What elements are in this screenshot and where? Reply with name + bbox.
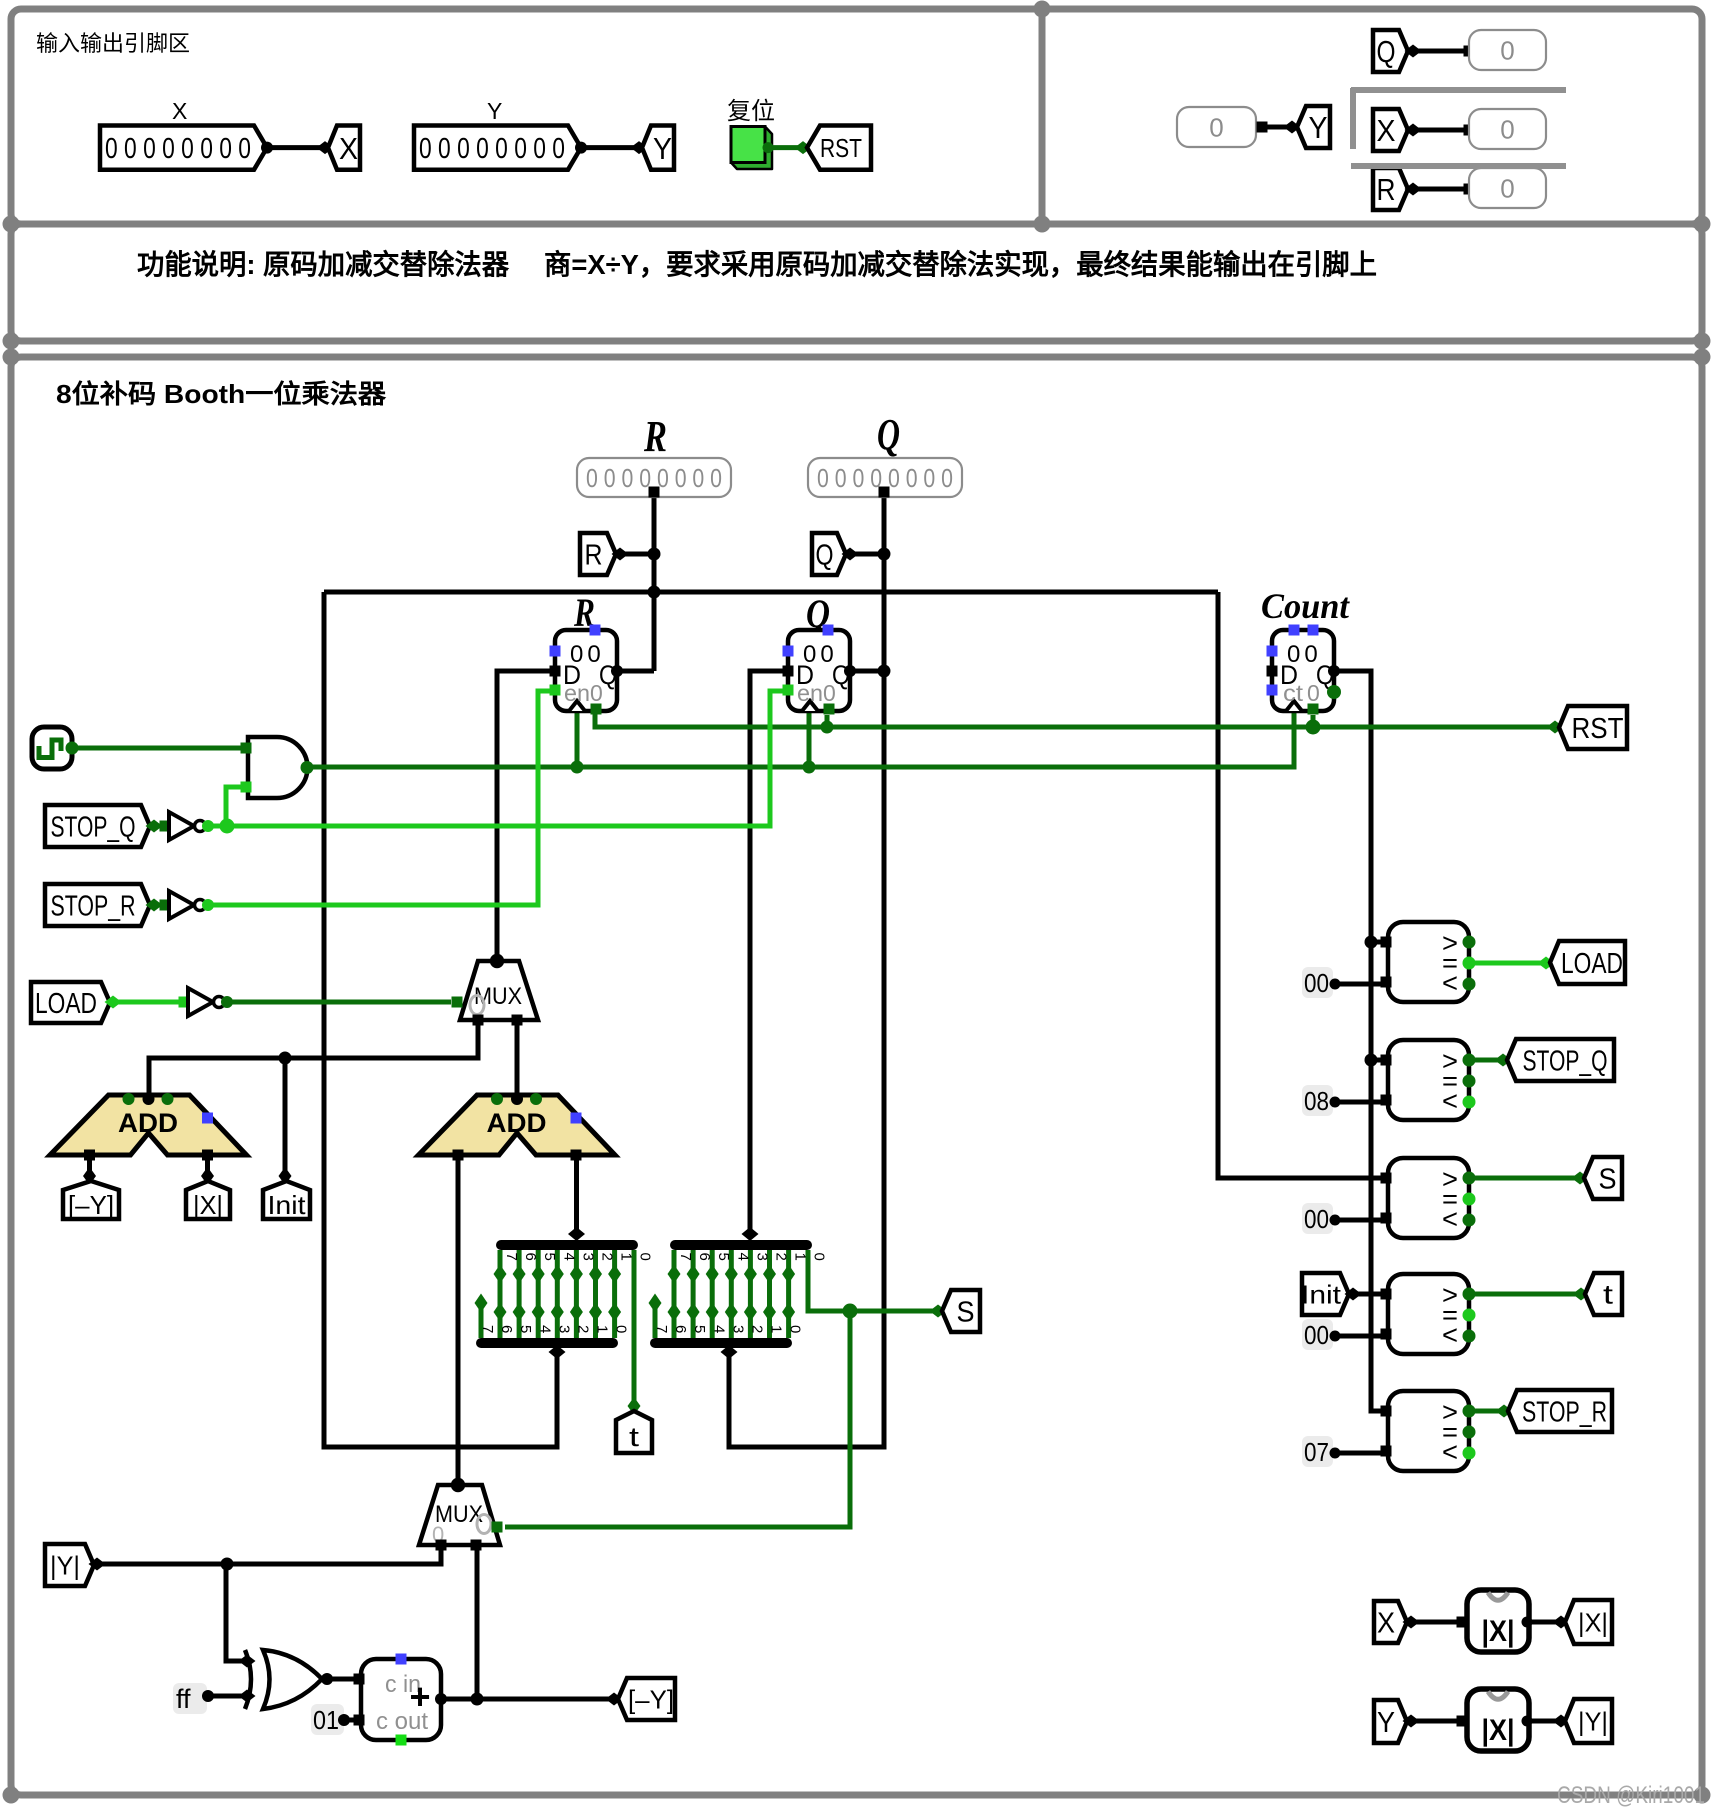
- wire end diamond: [842, 548, 859, 561]
- splitter R shift bottom bar: [481, 1338, 613, 1348]
- pin probe X input: [1464, 125, 1475, 136]
- probe Y value: [1177, 107, 1256, 147]
- frame corner dot: [1034, 1, 1051, 18]
- splitter Q shift bit wire 6: [672, 1250, 677, 1338]
- wire tunnel R to probe: [1416, 187, 1464, 192]
- splitter Q shift msb stub: [653, 1305, 658, 1338]
- tunnel R (main): [580, 533, 616, 575]
- wire clock branch register Q: [807, 711, 812, 767]
- wire tunnel Q to probe: [1416, 49, 1464, 54]
- svg-text:R: R: [643, 412, 667, 461]
- svg-text:S: S: [957, 1296, 975, 1328]
- wire end diamond: [1403, 1616, 1420, 1629]
- svg-text:Y: Y: [487, 98, 502, 124]
- wire end diamond: [146, 899, 163, 912]
- svg-text:6: 6: [696, 1253, 713, 1261]
- svg-text:STOP_R: STOP_R: [1522, 1396, 1607, 1428]
- splitter R shift bit wire 0: [612, 1250, 617, 1338]
- wire end diamond: [1405, 124, 1422, 137]
- pin probe R input: [1464, 184, 1475, 195]
- NOT gate LOAD: [179, 988, 234, 1016]
- adder ADD1: [50, 1093, 247, 1161]
- comparator Count==7 STOP_R: [1381, 1391, 1476, 1471]
- svg-text:+: +: [409, 1676, 430, 1717]
- tunnel S (right): [1584, 1157, 1622, 1199]
- wire bus R loop to splitter: [324, 592, 557, 1447]
- svg-text:1: 1: [768, 1325, 785, 1333]
- comparator R sign S: [1381, 1158, 1476, 1238]
- comparator Init t: [1381, 1274, 1476, 1354]
- svg-text:|X|: |X|: [1482, 1714, 1515, 1747]
- tunnel LOAD (left): [31, 982, 110, 1023]
- wire bus MUX1 out to register R D: [497, 671, 555, 957]
- wire RST branch register Count: [1311, 715, 1316, 727]
- wire button to RST tunnel: [768, 145, 800, 150]
- wire bus const 07 to comparator STOP_R: [1337, 1451, 1383, 1456]
- tunnel |Y| (bottom left): [45, 1544, 94, 1586]
- splitter R bottom bus pin: [549, 1345, 566, 1359]
- wire end diamond: [105, 996, 122, 1009]
- wire comparator gt to tunnel STOP_R: [1469, 1409, 1501, 1414]
- wire select S to MUX2: [505, 1311, 850, 1527]
- wire bus R feedback horizontal: [324, 590, 1218, 595]
- frame corner dot: [3, 349, 20, 366]
- wire end diamond: [1495, 1054, 1512, 1067]
- wire clock line to registers: [306, 711, 1294, 767]
- tunnel R (box B): [1373, 168, 1408, 210]
- frame vertical divider: [1039, 9, 1046, 224]
- svg-text:Q: Q: [1377, 34, 1396, 69]
- svg-text:3: 3: [729, 1325, 746, 1333]
- XOR gate: [239, 1650, 334, 1709]
- junction |Y| branch: [221, 1558, 234, 1571]
- wire input X to tunnel X: [267, 145, 321, 150]
- wire tunnel X to probe: [1416, 128, 1464, 133]
- wire bus const 00 to comparator t: [1337, 1334, 1383, 1339]
- constant 00 (S): [1302, 1203, 1341, 1234]
- wire end diamond: [606, 1693, 623, 1706]
- wire bus const 01 to adder b: [346, 1718, 361, 1723]
- pin probe Q input: [879, 487, 890, 498]
- probe register Q display: [808, 458, 962, 497]
- wire end diamond: [1553, 1616, 1570, 1629]
- tunnel -Y (under ADD1): [63, 1181, 119, 1219]
- wire bus R to comparator S: [1218, 592, 1383, 1178]
- svg-text:1: 1: [594, 1325, 611, 1333]
- svg-text:7: 7: [677, 1253, 694, 1261]
- junction clock R: [571, 761, 584, 774]
- svg-text:2: 2: [749, 1325, 766, 1333]
- tunnel Q (box B): [1373, 30, 1408, 72]
- svg-text:1: 1: [792, 1253, 809, 1261]
- comparator Count==8 STOP_Q: [1381, 1040, 1476, 1120]
- decoration gray bracket top: [1351, 88, 1566, 149]
- junction comparator STOP_Q a: [1365, 1054, 1378, 1067]
- svg-text:7: 7: [479, 1325, 496, 1333]
- svg-text:0: 0: [1500, 35, 1514, 65]
- tunnel Y (box B): [1297, 106, 1330, 148]
- wire end diamond: [1553, 1715, 1570, 1728]
- svg-text:07: 07: [1304, 1437, 1329, 1467]
- junction adder sum: [471, 1693, 484, 1706]
- svg-text:3: 3: [579, 1253, 596, 1261]
- junction R bus: [648, 586, 661, 599]
- probe register R display: [577, 458, 731, 497]
- wire bus Q probe/loop vertical: [729, 490, 884, 1447]
- input pin Y: [414, 126, 581, 170]
- splitter Q shift bottom bar: [655, 1338, 787, 1348]
- wire bus XOR out to adder a: [323, 1677, 361, 1682]
- tunnel LOAD (right): [1550, 941, 1625, 984]
- wire bus to comparator STOP_Q a: [1371, 1058, 1383, 1063]
- wire end diamond: [1345, 1288, 1362, 1301]
- wire splitter bit0 to tunnel S: [808, 1250, 935, 1311]
- input pin X: [100, 126, 267, 170]
- NOT gate STOP_Q: [160, 812, 215, 840]
- svg-text:4: 4: [710, 1325, 727, 1333]
- wire bus ADD2 a from MUX2: [456, 1155, 461, 1485]
- svg-text:<: <: [1442, 1437, 1458, 1467]
- wire bus const 00 to comparator LOAD: [1337, 982, 1383, 987]
- tunnel |X| (under ADD1): [186, 1181, 230, 1219]
- svg-text:RST: RST: [820, 133, 862, 163]
- wire comparator gt to tunnel STOP_Q: [1469, 1058, 1500, 1063]
- tunnel STOP_R (left): [45, 884, 150, 926]
- svg-text:0: 0: [637, 1253, 654, 1261]
- wire bus tunnel R stub: [621, 552, 654, 557]
- wire bus ADD1 b to tunnel X abs: [205, 1155, 210, 1172]
- tunnel t (right): [1585, 1273, 1622, 1315]
- wire bus const 00 to comparator S: [1337, 1218, 1383, 1223]
- svg-text:S: S: [1599, 1163, 1617, 1195]
- tunnel |X| (bottom right): [1565, 1600, 1612, 1644]
- pin probe R input: [649, 487, 660, 498]
- svg-text:STOP_Q: STOP_Q: [1523, 1045, 1608, 1077]
- svg-text:2: 2: [773, 1253, 790, 1261]
- splitter R top bus pin: [568, 1227, 585, 1241]
- frame corner dot: [3, 333, 20, 350]
- tunnel -Y (bottom): [618, 1678, 675, 1720]
- svg-text:X: X: [172, 98, 187, 124]
- svg-text:Y: Y: [653, 131, 672, 166]
- svg-text:7: 7: [653, 1325, 670, 1333]
- splitter R shift bit wire 1: [593, 1250, 598, 1338]
- svg-text:ff: ff: [176, 1684, 191, 1714]
- constant 00 (t): [1302, 1319, 1341, 1350]
- wire bus tunnel Y to abs block: [1416, 1719, 1460, 1724]
- splitter R shift bit wire 5: [517, 1250, 522, 1338]
- svg-text:X: X: [1377, 1607, 1395, 1639]
- svg-text:CSDN @Kiri1001: CSDN @Kiri1001: [1557, 1782, 1705, 1809]
- svg-text:4: 4: [536, 1325, 553, 1333]
- frame corner dot: [1694, 349, 1711, 366]
- clock source: [32, 727, 79, 769]
- wire end diamond: [1403, 1715, 1420, 1728]
- wire end diamond: [1573, 1288, 1590, 1301]
- tunnel S (mid): [942, 1290, 980, 1332]
- wire input Y to tunnel Y: [581, 145, 635, 150]
- wire bus tunnel Q stub: [851, 552, 884, 557]
- pin probe Y output side: [1257, 122, 1268, 133]
- frame description box border: [11, 224, 1702, 341]
- probe Q value: [1469, 30, 1546, 70]
- svg-text:R: R: [585, 539, 603, 571]
- wire end diamond: [1284, 121, 1301, 134]
- wire end diamond: [83, 1167, 96, 1185]
- AND gate: [241, 737, 314, 798]
- junction Q output: [878, 665, 891, 678]
- wire end diamond: [279, 1167, 292, 1185]
- svg-text:5: 5: [691, 1325, 708, 1333]
- junction select S: [843, 1304, 858, 1319]
- node button output: [763, 142, 774, 153]
- splitter R shift top bar: [501, 1240, 633, 1250]
- wire bus splitter to register Q D: [750, 671, 788, 1230]
- wire LOAD inverted to MUX1 sel: [224, 1000, 451, 1005]
- svg-text:ADD: ADD: [487, 1108, 547, 1138]
- register Count: [1267, 625, 1342, 715]
- tunnel X (bottom right): [1374, 1601, 1407, 1643]
- svg-text:Q: Q: [816, 539, 834, 571]
- wire STOP_Q inverted to register Q en: [207, 691, 783, 826]
- wire end diamond: [1547, 721, 1564, 734]
- wire clock to AND gate: [71, 746, 241, 751]
- tunnel Y (bottom right): [1374, 1700, 1407, 1743]
- svg-text:6: 6: [672, 1325, 689, 1333]
- wire bus ff to XOR input b: [207, 1694, 243, 1699]
- svg-text:Count: Count: [1261, 586, 1350, 626]
- wire clock branch register R: [575, 711, 580, 767]
- svg-text:00: 00: [1304, 1204, 1329, 1234]
- junction RST Q: [821, 721, 834, 734]
- svg-text:<: <: [1442, 1320, 1458, 1350]
- NOT gate STOP_R: [160, 891, 215, 919]
- wire bus adder sum to MUX2 b: [475, 1545, 480, 1699]
- comparator Count==0 LOAD: [1381, 922, 1476, 1002]
- svg-text:LOAD: LOAD: [1561, 948, 1623, 980]
- adder ADD2: [419, 1093, 616, 1161]
- tunnel STOP_R (right): [1508, 1390, 1612, 1432]
- tunnel Init (comparator): [1302, 1273, 1349, 1315]
- button 复位 (reset): [731, 127, 772, 170]
- svg-text:t: t: [1603, 1280, 1614, 1310]
- splitter Q shift bit wire 1: [767, 1250, 772, 1338]
- svg-text:输入输出引脚区: 输入输出引脚区: [36, 31, 190, 56]
- tunnel Q (main): [812, 533, 846, 575]
- wire end diamond: [795, 141, 812, 154]
- junction Init branch: [279, 1052, 292, 1065]
- splitter R shift bit wire 3: [555, 1250, 560, 1338]
- svg-text:6: 6: [498, 1325, 515, 1333]
- svg-text:0 0 0 0 0 0 0 0: 0 0 0 0 0 0 0 0: [105, 133, 251, 165]
- svg-text:X: X: [339, 131, 358, 166]
- svg-text:复位: 复位: [727, 98, 775, 125]
- tunnel X (box A): [328, 126, 360, 170]
- constant 01: [311, 1704, 350, 1735]
- svg-text:|X|: |X|: [1482, 1615, 1515, 1648]
- svg-text:|X|: |X|: [1578, 1607, 1608, 1637]
- junction RST Count: [1306, 720, 1321, 735]
- svg-text:|Y|: |Y|: [50, 1550, 80, 1580]
- wire bus Count to comparators: [1334, 671, 1383, 1411]
- wire RST line: [595, 711, 1552, 727]
- svg-text:<: <: [1442, 968, 1458, 998]
- svg-text:5: 5: [517, 1325, 534, 1333]
- pin abs Y input: [1457, 1716, 1468, 1727]
- svg-text:Y: Y: [1377, 1707, 1395, 1739]
- wire comparator gt to tunnel S: [1469, 1176, 1577, 1181]
- wire bus branch to tunnel Init: [283, 1058, 288, 1172]
- tunnel STOP_Q (left): [45, 805, 150, 847]
- splitter Q shift bit wire 5: [691, 1250, 696, 1338]
- svg-text:08: 08: [1304, 1086, 1329, 1116]
- svg-text:ADD: ADD: [118, 1108, 178, 1138]
- svg-text:6: 6: [522, 1253, 539, 1261]
- frame corner dot: [1694, 1787, 1711, 1804]
- svg-text:LOAD: LOAD: [35, 988, 97, 1020]
- wire end diamond: [1538, 957, 1555, 970]
- svg-text:1: 1: [618, 1253, 635, 1261]
- wire bus R probe vertical: [652, 490, 657, 671]
- wire bus tunnel Y abs to MUX2: [97, 1545, 441, 1564]
- tunnel Init (under ADD1): [263, 1181, 310, 1219]
- wire end diamond: [317, 141, 334, 154]
- svg-text:00: 00: [1304, 1320, 1329, 1350]
- svg-text:7: 7: [503, 1253, 520, 1261]
- svg-text:5: 5: [715, 1253, 732, 1261]
- svg-text:X: X: [1377, 113, 1396, 148]
- junction STOP_Q inv: [220, 819, 235, 834]
- splitter R shift bit wire 4: [536, 1250, 541, 1338]
- wire tunnel STOP_R to NOT: [154, 903, 167, 908]
- svg-text:8位补码 Booth一位乘法器: 8位补码 Booth一位乘法器: [56, 379, 387, 409]
- wire bus ADD2 b from splitter: [574, 1155, 579, 1230]
- wire end diamond: [1496, 1405, 1513, 1418]
- svg-text:2: 2: [599, 1253, 616, 1261]
- tunnel t (bottom): [616, 1411, 652, 1453]
- svg-text:<: <: [1442, 1204, 1458, 1234]
- wire bus to comparator LOAD a: [1371, 940, 1383, 945]
- junction clock Q: [803, 761, 816, 774]
- svg-text:00: 00: [1304, 968, 1329, 998]
- frame main box border: [11, 357, 1702, 1795]
- multiplexer MUX1: [452, 954, 539, 1026]
- svg-text:功能说明: 原码加减交替除法器 商=X÷Y，要求采用原码加: 功能说明: 原码加减交替除法器 商=X÷Y，要求采用原码加减交替除法实现，最终结…: [137, 248, 1377, 280]
- svg-text:0: 0: [823, 680, 836, 706]
- splitter R shift msb stub: [479, 1305, 484, 1338]
- wire probe to tunnel Y: [1267, 125, 1288, 130]
- tunnel RST (box A): [807, 126, 871, 170]
- wire end diamond: [1405, 45, 1422, 58]
- junction comparator LOAD a: [1365, 936, 1378, 949]
- wire end diamond: [89, 1558, 106, 1571]
- abs block Y: [1457, 1689, 1533, 1751]
- frame corner dot: [3, 1787, 20, 1804]
- svg-text:4: 4: [560, 1253, 577, 1261]
- svg-text:[–Y]: [–Y]: [68, 1190, 114, 1220]
- svg-text:Q: Q: [877, 410, 900, 459]
- svg-text:RST: RST: [1572, 713, 1624, 745]
- svg-text:|X|: |X|: [193, 1190, 223, 1220]
- register R: [550, 625, 624, 715]
- XOR input b diamond: [239, 1690, 256, 1703]
- constant 00 (LOAD): [1302, 967, 1341, 998]
- svg-text:t: t: [629, 1422, 640, 1452]
- svg-text:0 0 0 0 0 0 0 0: 0 0 0 0 0 0 0 0: [419, 133, 565, 165]
- svg-text:STOP_R: STOP_R: [51, 890, 136, 922]
- svg-text:R: R: [1377, 172, 1396, 207]
- wire end diamond: [631, 141, 648, 154]
- constant ff: [173, 1683, 214, 1714]
- XOR input a diamond: [239, 1655, 256, 1668]
- svg-text:Init: Init: [268, 1190, 307, 1220]
- wire tunnel STOP_Q to NOT: [154, 824, 167, 829]
- decoration gray line bottom: [1351, 163, 1566, 169]
- tunnel STOP_Q (right): [1507, 1039, 1614, 1081]
- tunnel Y (box A): [642, 126, 674, 170]
- wire comparator gt to tunnel t: [1469, 1292, 1578, 1297]
- node input X output: [261, 142, 273, 154]
- wire branch to AND gate b: [226, 787, 241, 826]
- svg-text:en: en: [797, 680, 823, 706]
- svg-text:ct: ct: [1283, 680, 1304, 706]
- svg-text:3: 3: [753, 1253, 770, 1261]
- abs block X: [1457, 1590, 1533, 1652]
- frame corner dot: [1694, 333, 1711, 350]
- pin abs X input: [1457, 1617, 1468, 1628]
- wire end diamond: [201, 1167, 214, 1185]
- wire splitter bit0 to tunnel t: [632, 1250, 637, 1403]
- wire bus tunnel Init to comparator t: [1357, 1292, 1383, 1297]
- svg-text:0: 0: [1500, 114, 1514, 144]
- wire bus ADD1 a to tunnel -Y: [87, 1155, 92, 1172]
- wire STOP_R inverted to register R en: [207, 691, 550, 905]
- tunnel X (box B): [1373, 109, 1408, 151]
- splitter Q shift bit wire 2: [748, 1250, 753, 1338]
- wire bus register R output: [617, 669, 654, 674]
- frame corner dot: [1694, 216, 1711, 233]
- splitter Q shift bit wire 3: [729, 1250, 734, 1338]
- svg-text:0: 0: [1209, 112, 1223, 142]
- register Q: [783, 625, 857, 715]
- wire bus tunnel X to abs block: [1416, 1620, 1460, 1625]
- svg-text:0: 0: [1500, 173, 1514, 203]
- wire end diamond: [628, 1397, 641, 1415]
- splitter Q bottom bus pin: [721, 1345, 738, 1359]
- svg-text:3: 3: [555, 1325, 572, 1333]
- wire end diamond: [930, 1305, 947, 1318]
- pin probe Q input: [1464, 46, 1475, 57]
- wire end diamond: [146, 820, 163, 833]
- splitter R shift bit wire 2: [574, 1250, 579, 1338]
- svg-text:01: 01: [313, 1705, 339, 1735]
- multiplexer MUX2: [419, 1478, 503, 1551]
- wire bus branch to XOR input a: [226, 1564, 245, 1661]
- svg-text:4: 4: [734, 1253, 751, 1261]
- probe R value: [1469, 168, 1546, 208]
- frame corner dot: [3, 216, 20, 233]
- svg-text:<: <: [1442, 1086, 1458, 1116]
- constant 08 (STOP_Q): [1302, 1085, 1341, 1116]
- tunnel RST (right): [1559, 706, 1627, 749]
- tunnel |Y| (bottom right): [1565, 1699, 1612, 1743]
- svg-text:0: 0: [1307, 680, 1320, 706]
- wire end diamond: [1572, 1172, 1589, 1185]
- svg-text:2: 2: [575, 1325, 592, 1333]
- frame corner dot: [1034, 216, 1051, 233]
- splitter Q shift bit wire 0: [786, 1250, 791, 1338]
- constant 07 (STOP_R): [1302, 1436, 1341, 1467]
